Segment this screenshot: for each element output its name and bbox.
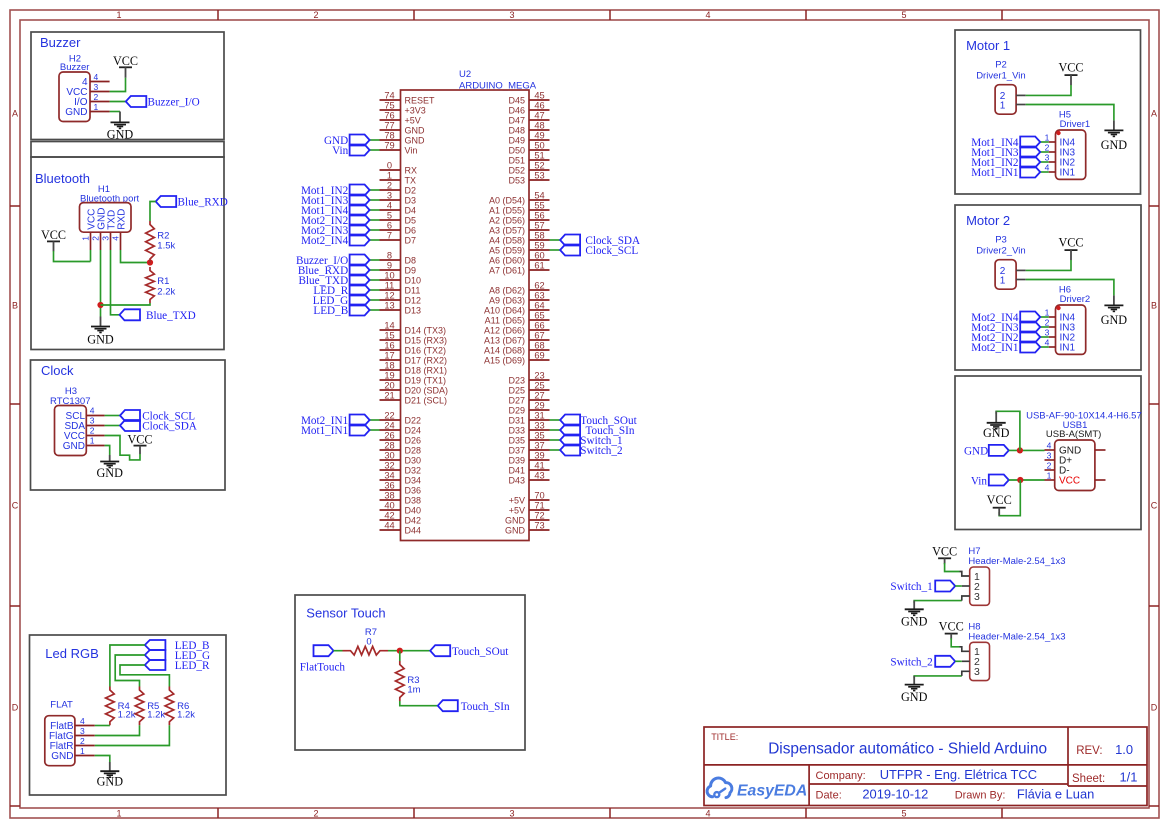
svg-text:D4: D4	[405, 206, 417, 216]
svg-text:GND: GND	[107, 127, 134, 141]
svg-text:54: 54	[534, 191, 544, 201]
svg-text:23: 23	[534, 371, 544, 381]
svg-text:7: 7	[387, 231, 392, 241]
svg-text:4: 4	[387, 201, 392, 211]
svg-text:5: 5	[387, 211, 392, 221]
svg-text:LED_R: LED_R	[175, 660, 210, 672]
svg-text:48: 48	[534, 121, 544, 131]
svg-text:69: 69	[534, 351, 544, 361]
svg-text:D19 (TX1): D19 (TX1)	[405, 376, 447, 386]
svg-text:2.2k: 2.2k	[157, 287, 175, 298]
svg-text:+3V3: +3V3	[405, 106, 426, 116]
svg-text:19: 19	[384, 371, 394, 381]
svg-text:D6: D6	[405, 226, 417, 236]
svg-text:P3: P3	[995, 235, 1007, 246]
svg-text:D44: D44	[405, 526, 422, 536]
svg-text:D40: D40	[405, 506, 422, 516]
svg-text:3: 3	[1045, 153, 1050, 163]
svg-text:43: 43	[534, 471, 544, 481]
svg-text:Led RGB: Led RGB	[45, 646, 98, 661]
svg-text:24: 24	[384, 421, 394, 431]
svg-text:1: 1	[94, 102, 99, 112]
svg-text:VCC: VCC	[1058, 60, 1083, 74]
svg-text:D39: D39	[508, 456, 525, 466]
svg-text:R1: R1	[157, 276, 169, 287]
svg-text:3: 3	[974, 666, 980, 678]
svg-text:U2: U2	[459, 69, 471, 80]
svg-text:1: 1	[116, 809, 121, 819]
svg-text:D11: D11	[405, 286, 421, 296]
svg-text:Switch_2: Switch_2	[580, 445, 622, 457]
svg-text:1.2k: 1.2k	[118, 710, 136, 721]
svg-text:38: 38	[384, 491, 394, 501]
svg-text:D16 (TX2): D16 (TX2)	[405, 346, 447, 356]
svg-text:6: 6	[387, 221, 392, 231]
svg-text:A14 (D68): A14 (D68)	[484, 346, 525, 356]
svg-text:60: 60	[534, 251, 544, 261]
svg-text:TX: TX	[405, 176, 417, 186]
svg-text:75: 75	[384, 101, 394, 111]
svg-text:B: B	[12, 301, 18, 311]
svg-text:9: 9	[387, 261, 392, 271]
svg-text:Clock_SCL: Clock_SCL	[585, 245, 638, 257]
svg-text:RXD: RXD	[117, 209, 128, 230]
svg-text:70: 70	[534, 491, 544, 501]
svg-text:10: 10	[384, 271, 394, 281]
svg-text:74: 74	[384, 91, 394, 101]
svg-text:A7 (D61): A7 (D61)	[489, 266, 525, 276]
svg-text:37: 37	[534, 441, 544, 451]
svg-text:A8 (D62): A8 (D62)	[489, 286, 525, 296]
svg-text:72: 72	[534, 511, 544, 521]
svg-text:D31: D31	[508, 416, 525, 426]
svg-text:Driver1_Vin: Driver1_Vin	[976, 71, 1025, 82]
svg-text:D14 (TX3): D14 (TX3)	[405, 326, 447, 336]
svg-text:40: 40	[384, 501, 394, 511]
svg-text:GND: GND	[505, 516, 526, 526]
svg-text:33: 33	[534, 421, 544, 431]
svg-text:REV:: REV:	[1076, 745, 1102, 757]
svg-text:Blue_RXD: Blue_RXD	[178, 197, 228, 209]
svg-text:Drawn By:: Drawn By:	[955, 790, 1006, 802]
svg-text:3: 3	[509, 10, 514, 20]
svg-text:4: 4	[705, 809, 710, 819]
svg-text:66: 66	[534, 321, 544, 331]
svg-text:D3: D3	[405, 196, 417, 206]
svg-text:C: C	[1151, 501, 1158, 511]
svg-text:RX: RX	[405, 166, 418, 176]
svg-text:Motor 1: Motor 1	[966, 38, 1010, 53]
svg-text:A: A	[1151, 109, 1157, 119]
svg-text:67: 67	[534, 331, 544, 341]
svg-text:46: 46	[534, 101, 544, 111]
svg-text:D35: D35	[508, 436, 525, 446]
svg-text:GND: GND	[405, 136, 426, 146]
svg-text:2: 2	[80, 736, 85, 746]
svg-text:GND: GND	[87, 333, 114, 347]
svg-text:4: 4	[94, 72, 99, 82]
svg-text:50: 50	[534, 141, 544, 151]
svg-text:58: 58	[534, 231, 544, 241]
svg-text:D20 (SDA): D20 (SDA)	[405, 386, 449, 396]
svg-text:30: 30	[384, 451, 394, 461]
svg-text:3: 3	[1045, 328, 1050, 338]
svg-text:59: 59	[534, 241, 544, 251]
svg-text:D30: D30	[405, 456, 422, 466]
svg-text:Header-Male-2.54_1x3: Header-Male-2.54_1x3	[968, 631, 1065, 642]
svg-text:D2: D2	[405, 186, 417, 196]
svg-text:GND: GND	[1101, 313, 1128, 327]
svg-text:IN1: IN1	[1060, 168, 1076, 179]
svg-text:34: 34	[384, 471, 394, 481]
svg-text:47: 47	[534, 111, 544, 121]
svg-text:Touch_SOut: Touch_SOut	[452, 646, 509, 658]
svg-text:1m: 1m	[407, 685, 420, 696]
svg-text:Driver1: Driver1	[1060, 119, 1091, 130]
svg-text:1: 1	[1045, 308, 1050, 318]
svg-text:GND: GND	[901, 615, 928, 629]
svg-text:USB-A(SMT): USB-A(SMT)	[1046, 429, 1101, 440]
svg-text:1/1: 1/1	[1120, 770, 1138, 785]
svg-text:D32: D32	[405, 466, 422, 476]
svg-text:2: 2	[1045, 143, 1050, 153]
svg-text:56: 56	[534, 211, 544, 221]
svg-text:65: 65	[534, 311, 544, 321]
svg-text:TITLE:: TITLE:	[711, 732, 738, 742]
svg-text:1: 1	[80, 746, 85, 756]
svg-text:63: 63	[534, 291, 544, 301]
svg-text:1: 1	[1045, 133, 1050, 143]
svg-text:VCC: VCC	[113, 54, 138, 68]
svg-text:FLAT: FLAT	[50, 700, 73, 711]
svg-text:78: 78	[384, 131, 394, 141]
svg-text:VCC: VCC	[41, 228, 66, 242]
svg-text:1: 1	[90, 436, 95, 446]
svg-text:51: 51	[534, 151, 544, 161]
svg-text:D46: D46	[508, 106, 525, 116]
svg-text:1: 1	[1000, 100, 1006, 111]
svg-text:5: 5	[901, 10, 906, 20]
svg-text:76: 76	[384, 111, 394, 121]
svg-text:UTFPR - Eng. Elétrica TCC: UTFPR - Eng. Elétrica TCC	[880, 767, 1037, 782]
svg-text:5: 5	[901, 809, 906, 819]
svg-text:31: 31	[534, 411, 544, 421]
svg-text:2: 2	[313, 809, 318, 819]
svg-text:79: 79	[384, 141, 394, 151]
svg-text:D53: D53	[508, 176, 525, 186]
svg-text:15: 15	[384, 331, 394, 341]
svg-text:Date:: Date:	[816, 790, 842, 802]
svg-text:Buzzer_I/O: Buzzer_I/O	[148, 97, 200, 109]
svg-text:D34: D34	[405, 476, 422, 486]
svg-text:Sheet:: Sheet:	[1072, 773, 1105, 785]
svg-text:1: 1	[387, 171, 392, 181]
svg-text:Mot1_IN1: Mot1_IN1	[301, 425, 348, 437]
svg-text:EasyEDA: EasyEDA	[737, 783, 807, 800]
svg-text:0: 0	[366, 637, 371, 648]
svg-text:3: 3	[1047, 451, 1052, 461]
svg-text:3: 3	[94, 82, 99, 92]
svg-text:61: 61	[534, 261, 544, 271]
svg-text:64: 64	[534, 301, 544, 311]
svg-text:49: 49	[534, 131, 544, 141]
svg-text:D8: D8	[405, 256, 417, 266]
svg-text:4: 4	[80, 716, 85, 726]
svg-text:A13 (D67): A13 (D67)	[484, 336, 525, 346]
svg-text:26: 26	[384, 431, 394, 441]
svg-text:12: 12	[384, 291, 394, 301]
svg-text:Blue_TXD: Blue_TXD	[146, 310, 196, 322]
svg-text:45: 45	[534, 91, 544, 101]
svg-text:GND: GND	[65, 107, 87, 118]
svg-text:29: 29	[534, 401, 544, 411]
svg-text:GND: GND	[901, 690, 928, 704]
svg-text:LED_B: LED_B	[313, 305, 348, 317]
svg-text:D51: D51	[508, 156, 525, 166]
svg-text:Vin: Vin	[971, 475, 988, 487]
svg-text:1: 1	[1047, 471, 1052, 481]
svg-text:D48: D48	[508, 126, 525, 136]
svg-text:Header-Male-2.54_1x3: Header-Male-2.54_1x3	[968, 556, 1065, 567]
svg-text:VCC: VCC	[939, 620, 964, 634]
svg-text:Bluetooth: Bluetooth	[35, 171, 90, 186]
svg-text:22: 22	[384, 411, 394, 421]
svg-text:GND: GND	[964, 445, 988, 457]
svg-text:53: 53	[534, 171, 544, 181]
svg-text:+5V: +5V	[405, 116, 421, 126]
svg-text:Buzzer: Buzzer	[40, 35, 81, 50]
svg-text:Mot2_IN1: Mot2_IN1	[971, 342, 1018, 354]
svg-text:21: 21	[384, 391, 394, 401]
svg-text:D49: D49	[508, 136, 525, 146]
svg-text:D: D	[12, 703, 19, 713]
svg-text:GND: GND	[63, 441, 85, 452]
svg-text:VCC: VCC	[127, 432, 152, 446]
svg-text:D13: D13	[405, 306, 422, 316]
svg-text:2: 2	[313, 10, 318, 20]
svg-text:2019-10-12: 2019-10-12	[862, 787, 928, 802]
svg-text:8: 8	[387, 251, 392, 261]
svg-text:Switch_2: Switch_2	[890, 656, 932, 668]
svg-text:4: 4	[1045, 338, 1050, 348]
svg-text:D43: D43	[508, 476, 525, 486]
svg-text:D27: D27	[508, 396, 525, 406]
svg-text:4: 4	[1045, 163, 1050, 173]
svg-text:3: 3	[101, 236, 111, 241]
svg-text:FlatTouch: FlatTouch	[300, 662, 346, 674]
svg-text:4: 4	[1047, 441, 1052, 451]
svg-text:C: C	[12, 501, 19, 511]
svg-text:A11 (D65): A11 (D65)	[485, 316, 525, 326]
svg-text:44: 44	[384, 521, 394, 531]
svg-text:RESET: RESET	[405, 96, 436, 106]
svg-text:IN1: IN1	[1060, 343, 1076, 354]
svg-text:4: 4	[90, 406, 95, 416]
svg-text:D18 (RX1): D18 (RX1)	[405, 366, 448, 376]
svg-text:GND: GND	[97, 775, 124, 789]
svg-text:VCC: VCC	[932, 544, 957, 558]
svg-text:D50: D50	[508, 146, 525, 156]
svg-text:Flávia e Luan: Flávia e Luan	[1017, 787, 1094, 802]
svg-text:Sensor Touch: Sensor Touch	[306, 606, 385, 621]
svg-text:Company:: Company:	[816, 770, 866, 782]
svg-text:0: 0	[387, 161, 392, 171]
svg-text:1.0: 1.0	[1115, 742, 1133, 757]
svg-text:D26: D26	[405, 436, 422, 446]
svg-text:2: 2	[1045, 318, 1050, 328]
svg-text:4: 4	[705, 10, 710, 20]
svg-text:3: 3	[80, 726, 85, 736]
svg-text:62: 62	[534, 281, 544, 291]
svg-text:2: 2	[91, 236, 101, 241]
svg-text:D45: D45	[508, 96, 525, 106]
svg-text:B: B	[1151, 301, 1157, 311]
svg-text:D41: D41	[508, 466, 525, 476]
svg-text:17: 17	[384, 351, 394, 361]
svg-text:D25: D25	[508, 386, 525, 396]
svg-text:A5 (D59): A5 (D59)	[489, 246, 525, 256]
svg-text:D10: D10	[405, 276, 422, 286]
svg-text:A4 (D58): A4 (D58)	[489, 236, 525, 246]
svg-text:57: 57	[534, 221, 544, 231]
svg-text:D15 (RX3): D15 (RX3)	[405, 336, 448, 346]
svg-text:73: 73	[534, 521, 544, 531]
svg-text:3: 3	[974, 591, 980, 603]
svg-text:68: 68	[534, 341, 544, 351]
svg-text:D21 (SCL): D21 (SCL)	[405, 396, 448, 406]
svg-text:A2 (D56): A2 (D56)	[489, 216, 525, 226]
svg-text:A3 (D57): A3 (D57)	[489, 226, 525, 236]
svg-text:D7: D7	[405, 236, 417, 246]
svg-text:Switch_1: Switch_1	[890, 581, 932, 593]
svg-text:Vin: Vin	[332, 145, 349, 157]
svg-text:11: 11	[385, 281, 395, 291]
svg-text:52: 52	[534, 161, 544, 171]
svg-text:2: 2	[94, 92, 99, 102]
svg-text:P2: P2	[995, 60, 1007, 71]
svg-text:39: 39	[534, 451, 544, 461]
svg-text:1.2k: 1.2k	[177, 710, 195, 721]
svg-text:1: 1	[116, 10, 121, 20]
svg-text:Motor 2: Motor 2	[966, 213, 1010, 228]
svg-text:41: 41	[534, 461, 544, 471]
svg-text:VCC: VCC	[1058, 235, 1083, 249]
svg-text:VCC: VCC	[1059, 476, 1080, 487]
svg-text:35: 35	[534, 431, 544, 441]
svg-text:4: 4	[111, 236, 121, 241]
svg-text:3: 3	[509, 809, 514, 819]
svg-text:D47: D47	[508, 116, 525, 126]
svg-text:28: 28	[384, 441, 394, 451]
svg-text:A1 (D55): A1 (D55)	[489, 206, 525, 216]
svg-text:D36: D36	[405, 486, 422, 496]
svg-text:D37: D37	[508, 446, 525, 456]
svg-text:Driver2: Driver2	[1060, 294, 1091, 305]
svg-text:1.5k: 1.5k	[157, 241, 175, 252]
svg-text:D33: D33	[508, 426, 525, 436]
svg-text:A6 (D60): A6 (D60)	[489, 256, 525, 266]
svg-text:42: 42	[384, 511, 394, 521]
svg-text:13: 13	[384, 301, 394, 311]
svg-text:A12 (D66): A12 (D66)	[484, 326, 525, 336]
svg-text:+5V: +5V	[509, 506, 525, 516]
svg-text:1: 1	[81, 236, 91, 241]
svg-text:16: 16	[384, 341, 394, 351]
svg-text:GND: GND	[983, 426, 1010, 440]
svg-text:A15 (D69): A15 (D69)	[484, 356, 525, 366]
svg-text:77: 77	[384, 121, 394, 131]
svg-text:D22: D22	[405, 416, 422, 426]
svg-text:3: 3	[90, 416, 95, 426]
svg-text:VCC: VCC	[987, 493, 1012, 507]
svg-text:2: 2	[1047, 461, 1052, 471]
svg-text:GND: GND	[51, 751, 73, 762]
svg-text:18: 18	[384, 361, 394, 371]
svg-text:36: 36	[384, 481, 394, 491]
svg-text:D5: D5	[405, 216, 417, 226]
svg-text:GND: GND	[96, 466, 123, 480]
svg-text:2: 2	[90, 426, 95, 436]
svg-text:Vin: Vin	[405, 146, 418, 156]
svg-text:27: 27	[534, 391, 544, 401]
svg-text:55: 55	[534, 201, 544, 211]
svg-text:D42: D42	[405, 516, 422, 526]
svg-text:2: 2	[387, 181, 392, 191]
svg-text:71: 71	[534, 501, 544, 511]
svg-text:Touch_SIn: Touch_SIn	[461, 701, 510, 713]
svg-text:A9 (D63): A9 (D63)	[489, 296, 525, 306]
svg-text:Mot2_IN4: Mot2_IN4	[301, 235, 349, 247]
svg-text:32: 32	[384, 461, 394, 471]
svg-text:GND: GND	[405, 126, 426, 136]
svg-text:25: 25	[534, 381, 544, 391]
svg-text:D24: D24	[405, 426, 422, 436]
svg-text:Dispensador automático - Shiel: Dispensador automático - Shield Arduino	[768, 741, 1047, 758]
svg-text:D23: D23	[508, 376, 525, 386]
svg-text:Clock: Clock	[41, 363, 74, 378]
svg-text:3: 3	[387, 191, 392, 201]
svg-text:D: D	[1151, 703, 1158, 713]
svg-text:GND: GND	[1101, 138, 1128, 152]
svg-text:GND: GND	[505, 526, 526, 536]
svg-text:D52: D52	[508, 166, 525, 176]
svg-text:+5V: +5V	[509, 496, 525, 506]
svg-text:D28: D28	[405, 446, 422, 456]
svg-text:D9: D9	[405, 266, 417, 276]
svg-text:20: 20	[384, 381, 394, 391]
svg-text:A10 (D64): A10 (D64)	[484, 306, 525, 316]
svg-text:Driver2_Vin: Driver2_Vin	[976, 246, 1025, 257]
svg-text:D38: D38	[405, 496, 422, 506]
svg-text:Mot1_IN1: Mot1_IN1	[971, 167, 1018, 179]
svg-text:14: 14	[384, 321, 394, 331]
svg-text:1.2k: 1.2k	[147, 710, 165, 721]
svg-text:A0 (D54): A0 (D54)	[489, 196, 525, 206]
svg-text:D17 (RX2): D17 (RX2)	[405, 356, 448, 366]
svg-text:D12: D12	[405, 296, 422, 306]
svg-text:D29: D29	[508, 406, 525, 416]
svg-text:A: A	[12, 109, 18, 119]
svg-text:1: 1	[1000, 275, 1006, 286]
svg-text:Clock_SDA: Clock_SDA	[142, 421, 197, 433]
